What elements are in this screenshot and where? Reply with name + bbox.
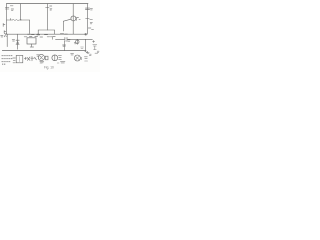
label R10 [88, 28, 93, 30]
marks lower mid [60, 61, 65, 63]
marks below [40, 61, 44, 62]
junction mark [63, 45, 66, 46]
marks right of box [84, 57, 87, 59]
plus mark [24, 57, 26, 59]
resistor R1 zigzag [12, 19, 21, 20]
wire ground rail bottom [2, 50, 86, 52]
transformer T1 box [27, 38, 36, 44]
tick plus [86, 18, 90, 20]
capacitor C4 plates [85, 8, 89, 10]
wire left input branch [6, 4, 8, 35]
wire from R1 to corner [21, 19, 30, 21]
arrow mark rail end [85, 51, 89, 54]
wire V2 from bus [20, 4, 22, 20]
label C3 [50, 6, 52, 10]
tick stub [51, 37, 53, 39]
cluster box right [74, 55, 80, 61]
stub below T1 [31, 44, 33, 47]
label above rail end [81, 47, 84, 48]
wire V10 to rail [85, 39, 87, 50]
label left of wire [53, 36, 56, 38]
wire V8 stage2 left [6, 34, 8, 46]
label R8 [77, 17, 81, 20]
phone jack plus [93, 40, 95, 42]
marks far right [85, 51, 99, 61]
svg-text:Fig. 10: Fig. 10 [44, 65, 54, 69]
label below Q2 base [60, 33, 67, 35]
diode D1 [16, 40, 19, 44]
wire stage2 signal [56, 38, 93, 40]
floating labels R5 C6 [40, 36, 52, 38]
text block lower-left [2, 56, 13, 65]
capacitor C3 tick [46, 7, 49, 9]
transistor Q2 base wire [63, 19, 71, 31]
caption marks [40, 62, 59, 64]
label C2 [28, 33, 35, 35]
label B1 [13, 58, 16, 63]
wire V7 output [86, 4, 88, 35]
label T1 [30, 46, 33, 48]
label C7 [68, 40, 70, 41]
wire top supply bus [7, 3, 89, 5]
cluster circle 2 [52, 55, 58, 61]
node terminal dot [85, 33, 87, 35]
electrolytic C8 [76, 39, 78, 44]
label C1 [10, 6, 13, 11]
capacitor C7 plates [65, 37, 67, 41]
label R9 [90, 20, 93, 24]
capacitor C1 plates [5, 7, 9, 9]
battery B1 box [16, 55, 23, 62]
label C4 [90, 8, 92, 10]
cluster symbol left [27, 56, 36, 60]
label C8 [74, 42, 76, 43]
transistor circle bottom [38, 54, 44, 60]
transistor Q2 circle [71, 16, 76, 21]
side box [45, 56, 48, 60]
marks upper [71, 53, 74, 55]
node junction V2 [20, 19, 21, 20]
marks [37, 55, 40, 56]
wire V9 [17, 34, 19, 49]
label top-left stage2 [1, 33, 7, 37]
wire base branch [7, 19, 13, 21]
wire ground rail mid [7, 33, 87, 35]
wire collector mid [38, 30, 54, 34]
wire V5 right stage [72, 4, 74, 35]
label R2 text left [3, 23, 5, 33]
wire cap to rail [63, 42, 65, 51]
marks right [58, 56, 61, 60]
wire V4 from bus [46, 4, 48, 30]
node dot [38, 33, 39, 34]
wire corner down [29, 20, 31, 34]
label below [37, 34, 48, 36]
labels above T1 [24, 36, 37, 38]
tick node [9, 18, 11, 20]
phone element [93, 45, 97, 50]
label D1 [12, 40, 14, 41]
